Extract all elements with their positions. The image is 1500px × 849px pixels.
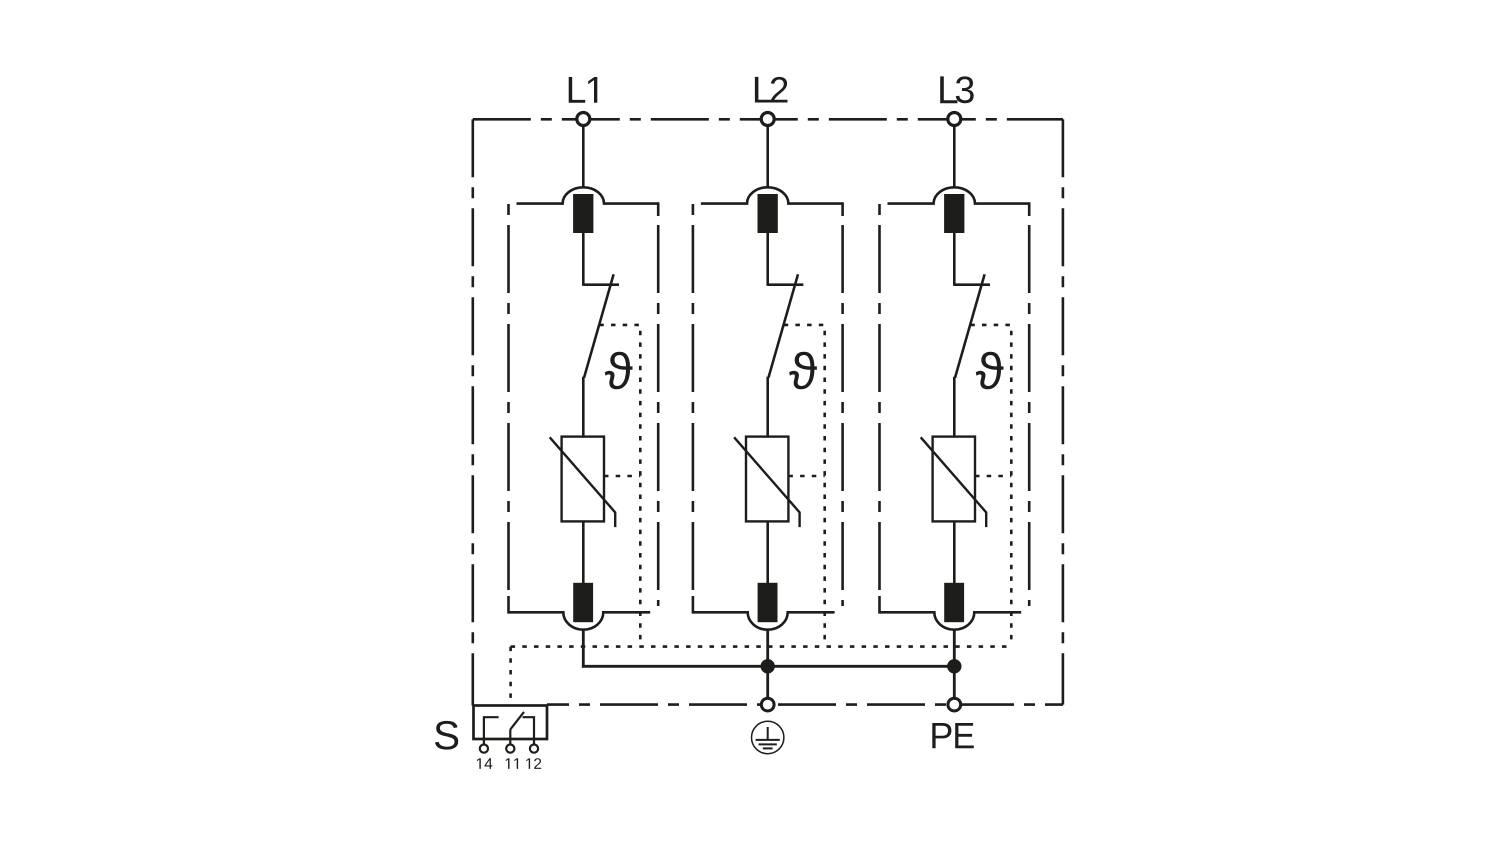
terminal circle 12 — [530, 745, 538, 753]
wire disconnector to switch, module 3 — [953, 233, 956, 286]
terminal stub 11 — [509, 739, 511, 745]
terminal circle 14 — [480, 745, 488, 753]
label S — [435, 721, 458, 750]
module 2 box left edge (dash-dot) — [692, 204, 695, 594]
dotted drop wire to remote contact S — [509, 647, 512, 706]
wire from L2 terminal down into module 2 — [766, 126, 769, 188]
module 3 bottom thermal disconnector (black block) — [944, 583, 964, 622]
module 2 top thermal disconnector (black block) — [758, 194, 778, 233]
enclosure bottom border (dash-dot) — [547, 703, 1063, 706]
earth symbol stem — [767, 727, 769, 740]
module 1 dotted link varistor to sensor — [604, 475, 640, 478]
contact 12 lead inside box — [523, 717, 534, 739]
terminal L2 — [761, 113, 774, 126]
contact 11 lead (common) — [509, 729, 511, 739]
enclosure top border (dash-dot) — [473, 118, 1063, 121]
PE bus (solid) — [582, 665, 954, 668]
module 2 box right edge (dash-dot) — [841, 225, 844, 606]
module 2 varistor diagonal stroke — [734, 437, 800, 527]
module 3 box top-right corner — [1028, 202, 1031, 216]
module 2 bottom thermal disconnector (black block) — [758, 583, 778, 622]
wire switch to varistor, module 3 — [953, 377, 956, 438]
module 3 dotted link varistor to sensor — [975, 475, 1011, 478]
module 1 bottom thermal disconnector (black block) — [573, 583, 593, 622]
earth symbol bar 1 — [756, 739, 780, 741]
wire module 2 down to earth terminal — [766, 630, 769, 698]
module 2 disconnect switch fixed contact — [768, 283, 804, 286]
terminal stub 12 — [533, 739, 535, 745]
module 3 temperature symbol theta — [976, 352, 1004, 390]
module 2 varistor body — [746, 437, 788, 522]
terminal L1 — [577, 113, 590, 126]
label terminal 12 — [526, 758, 541, 769]
terminal circle 11 — [506, 745, 514, 753]
module 2 box top-right corner — [841, 202, 844, 216]
module 1 disconnect switch fixed contact — [583, 283, 619, 286]
enclosure right border (dash-dot) — [1062, 119, 1065, 704]
module 3 box bottom edge with plug-in dome — [880, 612, 1022, 629]
wire disconnector to switch, module 2 — [766, 233, 769, 286]
module 1 varistor body — [562, 437, 604, 522]
terminal stub 14 — [483, 739, 485, 745]
module 2 box top edge with plug-in dome — [701, 187, 843, 203]
protective earth symbol circle — [752, 721, 784, 753]
contact 11-12 switch blade — [510, 712, 524, 730]
module 2 box bottom-left corner — [692, 596, 695, 614]
module 3 top thermal disconnector (black block) — [944, 194, 964, 233]
wire varistor to bottom disconnector, module 1 — [582, 521, 585, 583]
module 2 temperature sensor dotted box — [784, 325, 825, 647]
module 1 temperature sensor dotted box — [599, 325, 640, 647]
label L3 — [940, 76, 974, 103]
label terminal 14 — [477, 758, 492, 769]
module 3 box left edge (dash-dot) — [878, 204, 881, 594]
label L2 — [755, 77, 788, 103]
module 3 varistor diagonal stroke — [921, 437, 987, 527]
wire module 1 down to PE bus — [582, 630, 585, 668]
module 3 box right edge (dash-dot) — [1028, 225, 1031, 606]
wire module 3 down to PE terminal — [953, 630, 956, 698]
wire from L1 terminal down into module 1 — [582, 126, 585, 188]
module 1 box top edge with plug-in dome — [517, 187, 659, 203]
earth symbol bar 3 — [763, 747, 773, 749]
module 3 disconnect switch fixed contact — [954, 283, 990, 286]
module 3 disconnect switch blade — [955, 274, 985, 378]
terminal L3 — [948, 113, 961, 126]
contact 14 lead inside box — [484, 717, 499, 739]
module 1 top thermal disconnector (black block) — [573, 194, 593, 233]
module 2 disconnect switch blade — [768, 274, 798, 378]
module 3 box bottom-left corner — [878, 596, 881, 614]
wire varistor to bottom disconnector, module 3 — [953, 521, 956, 583]
PE terminal circle — [948, 698, 961, 711]
module 2 box bottom edge with plug-in dome — [693, 612, 835, 629]
wire switch to varistor, module 1 — [582, 377, 585, 438]
wire from L3 terminal down into module 3 — [953, 126, 956, 188]
junction dot, module 2 on PE bus — [761, 659, 775, 673]
dotted thermal monitoring bus — [511, 645, 1012, 648]
module 1 box bottom-left corner — [507, 596, 510, 614]
module 3 temperature sensor dotted box — [970, 325, 1011, 647]
earth symbol bar 2 — [759, 743, 777, 745]
label PE — [932, 723, 974, 748]
remote signalling contact box S — [474, 706, 548, 740]
label terminal 11 — [506, 758, 518, 769]
label L1 — [569, 77, 598, 103]
module 3 box top edge with plug-in dome — [888, 187, 1030, 203]
enclosure left border (dash-dot) — [471, 119, 474, 705]
module 3 varistor body — [933, 437, 975, 522]
module 1 box right edge (dash-dot) — [657, 225, 660, 606]
wire switch to varistor, module 2 — [766, 377, 769, 438]
wire disconnector to switch, module 1 — [582, 233, 585, 286]
module 2 dotted link varistor to sensor — [788, 475, 824, 478]
wire varistor to bottom disconnector, module 2 — [766, 521, 769, 583]
earth terminal circle (below module 2) — [761, 698, 774, 711]
module 1 varistor diagonal stroke — [550, 437, 616, 527]
junction dot, module 3 on PE bus — [947, 659, 961, 673]
module 1 box left edge (dash-dot) — [507, 204, 510, 594]
module 1 box top-right corner — [657, 202, 660, 216]
module 1 temperature symbol theta — [605, 352, 633, 390]
module 2 temperature symbol theta — [789, 352, 817, 390]
module 1 box bottom edge with plug-in dome — [509, 612, 651, 629]
module 1 disconnect switch blade — [584, 274, 614, 378]
